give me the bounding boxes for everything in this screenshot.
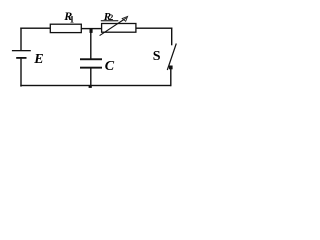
resistor R1: [50, 24, 81, 32]
svg-text:E: E: [33, 52, 43, 67]
battery E: [12, 50, 31, 59]
junction node (bottom, capacitor to bottom wire): [89, 85, 92, 88]
rheostat R2: [100, 16, 136, 35]
svg-text:C: C: [105, 59, 115, 74]
capacitor C: [80, 58, 102, 68]
wire: left vertical upper (corner to battery): [20, 28, 21, 51]
switch S: [167, 44, 176, 71]
wire: right vertical lower (switch to bottom wire): [170, 69, 171, 86]
wire: capacitor branch upper vertical: [90, 33, 91, 59]
wire: R1 to R2 horizontal: [81, 28, 102, 29]
wire: R2 to top-right corner: [136, 28, 172, 29]
svg-text:1: 1: [70, 15, 75, 25]
label R1: [63, 9, 74, 24]
junction node (top, capacitor tap): [90, 28, 93, 33]
wire: left vertical lower (battery to bottom wire): [20, 59, 21, 87]
wire: top-left horizontal (battery top to R1): [20, 28, 50, 29]
label R2: [101, 11, 119, 23]
wire: bottom horizontal: [20, 85, 171, 86]
svg-text:S: S: [153, 49, 161, 64]
wire: capacitor branch lower vertical: [90, 68, 91, 85]
wire: right vertical stub (to switch top contact): [171, 28, 172, 46]
